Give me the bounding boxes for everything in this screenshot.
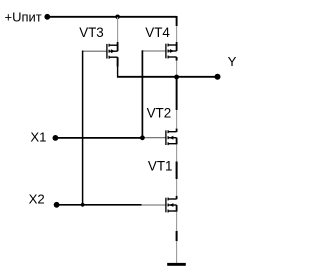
node X2 terminal dot (54, 202, 60, 208)
wire VT3 drain down to output wire corner (117, 57, 119, 66)
node Y terminal dot (215, 74, 221, 80)
transistor VT3 (p-channel MOSFET) (83, 44, 118, 59)
wire VT4 drain down to output junction (176, 57, 178, 61)
svg-text:Y: Y (228, 54, 237, 69)
wire X2 branch up to VT3 gate (82, 51, 84, 205)
node +Uпит terminal dot (44, 14, 50, 20)
svg-text:X1: X1 (30, 129, 46, 144)
wire VT3 column rail to VT3 top (117, 17, 119, 42)
svg-text:+Uпит: +Uпит (5, 9, 42, 24)
wire output junction down to VT2 drain (176, 78, 178, 110)
transistor VT2 (n-channel MOSFET) (142, 130, 176, 145)
transistor VT1 (n-channel MOSFET) (141, 198, 177, 213)
wire +U power rail (47, 16, 177, 18)
node X1 terminal dot (53, 135, 59, 141)
wire X2 to VT1 gate (57, 204, 142, 206)
svg-text:X2: X2 (29, 191, 45, 206)
wire X1 branch up to VT4 gate (141, 50, 143, 138)
svg-text:VT1: VT1 (148, 158, 173, 173)
node junction dot rail to VT3 source column (115, 14, 120, 19)
wire VT4 column rail corner down to VT4 top (176, 16, 178, 26)
wire VT1 source down to ground (176, 212, 178, 231)
node junction dot X1 to VT4 gate (140, 135, 145, 140)
node junction dot X2 to VT3 gate branch (81, 203, 85, 207)
transistor VT4 (p-channel MOSFET) (142, 44, 176, 59)
wire output Y horizontal (117, 76, 218, 78)
wire VT2 source down to VT1 drain (176, 144, 178, 161)
svg-text:VT2: VT2 (147, 105, 172, 120)
node output junction dot (174, 75, 179, 80)
ground (167, 263, 186, 266)
wire X1 to junction (55, 137, 142, 139)
svg-text:VT4: VT4 (145, 25, 170, 40)
svg-text:VT3: VT3 (79, 25, 104, 40)
